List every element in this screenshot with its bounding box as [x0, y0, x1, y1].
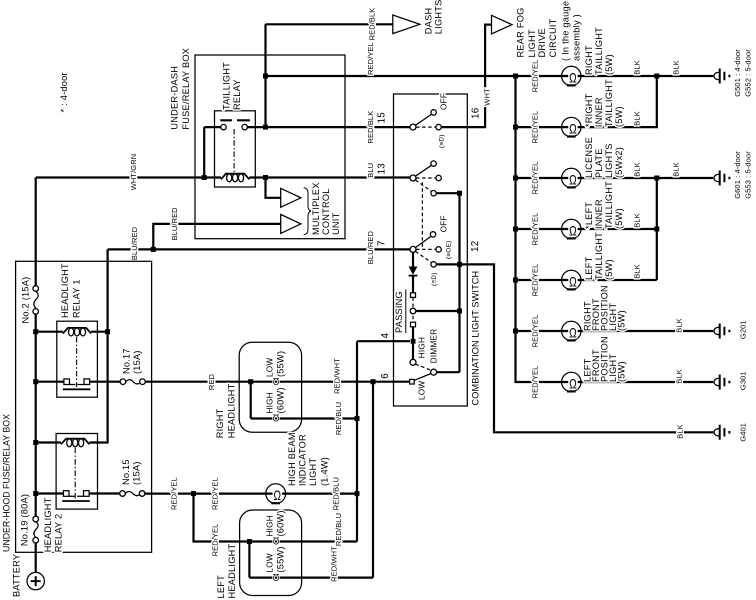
svg-text:RED/BLU: RED/BLU	[334, 402, 343, 435]
svg-text:(15A): (15A)	[132, 461, 142, 485]
switch internal vertical	[458, 193, 460, 372]
svg-text:HIGH: HIGH	[266, 392, 275, 413]
svg-text:(5W): (5W)	[604, 259, 614, 280]
svg-text:OFF: OFF	[440, 215, 449, 232]
taillight relay contact blade	[220, 119, 250, 121]
svg-text:BLK: BLK	[632, 162, 641, 176]
svg-text:TAILLIGHT: TAILLIGHT	[594, 232, 604, 280]
svg-text:RED/YEL: RED/YEL	[531, 162, 540, 195]
wire right headlight high beam branch	[251, 382, 357, 419]
wire row6 BLK to ground G201	[581, 330, 713, 332]
svg-text:LIGHT: LIGHT	[308, 458, 318, 486]
multiplex input arrow 2	[281, 214, 301, 233]
wire RED / RED/WHT row to switch pin 6	[145, 381, 410, 383]
svg-text:Ω: Ω	[274, 487, 282, 503]
combination light switch box	[394, 94, 468, 406]
svg-text:No.15: No.15	[121, 459, 131, 485]
switch row 13 lower contact	[431, 191, 436, 196]
svg-text:Ω: Ω	[569, 325, 577, 341]
svg-text:assembly ): assembly )	[572, 14, 582, 61]
relay2 coil	[61, 439, 89, 445]
svg-text:BLK: BLK	[672, 60, 681, 74]
fuse No.19 (80A)	[33, 516, 39, 522]
wire taillight bus	[516, 76, 562, 382]
svg-text:HIGH: HIGH	[266, 515, 275, 536]
switch row 13 arm	[415, 165, 431, 176]
svg-text:RIGHT: RIGHT	[584, 45, 594, 75]
svg-text:HEADLIGHT: HEADLIGHT	[227, 383, 237, 438]
svg-text:DRIVE: DRIVE	[537, 28, 547, 57]
wire row7 BLK to ground G301	[581, 381, 713, 383]
svg-text:Ω: Ω	[569, 223, 577, 239]
wire row5 feed	[516, 279, 562, 281]
svg-text:Ω: Ω	[569, 70, 577, 86]
svg-text:(5W): (5W)	[617, 310, 627, 331]
svg-text:RED/YEL: RED/YEL	[211, 524, 220, 557]
switch row 7 second contact	[436, 247, 441, 252]
svg-text:RED: RED	[207, 373, 216, 390]
bulb left front position light	[562, 372, 581, 391]
svg-text:HIGH BEAM: HIGH BEAM	[287, 432, 297, 486]
bulb right inner taillight	[562, 117, 581, 136]
taillight relay left link wire	[203, 127, 205, 177]
junction dots left	[33, 329, 38, 334]
svg-text:(1.4W): (1.4W)	[320, 457, 330, 486]
wire row1 BLK to ground	[581, 75, 713, 77]
svg-text:(55W): (55W)	[276, 351, 286, 377]
svg-text:UNDER-HOOD FUSE/RELAY BOX: UNDER-HOOD FUSE/RELAY BOX	[2, 414, 12, 552]
svg-text:RELAY 1: RELAY 1	[72, 279, 82, 318]
svg-text:BLU/RED: BLU/RED	[366, 231, 375, 265]
wire row6 feed	[516, 330, 562, 332]
wire BLU/RED to switch pin 7	[108, 248, 410, 250]
relay2 contact terminals	[63, 491, 69, 497]
svg-text:G553 : 5-door: G553 : 5-door	[743, 151, 752, 199]
svg-text:CIRCUIT: CIRCUIT	[548, 18, 558, 57]
svg-text:RED/BLK: RED/BLK	[368, 8, 377, 41]
switch row 13 upper contact	[431, 161, 436, 166]
svg-text:Ω: Ω	[569, 172, 577, 188]
fuse No.2 (15A)	[33, 286, 39, 292]
wire BLU/RED bus to relay coils	[89, 249, 107, 442]
svg-text:G201: G201	[738, 320, 747, 339]
svg-text:G301: G301	[738, 371, 747, 390]
wire pin 12 to ground G401	[460, 264, 714, 432]
taillight relay contact terminals	[221, 124, 226, 129]
svg-text:RED/YEL: RED/YEL	[531, 213, 540, 246]
svg-text:* : 4-door: * : 4-door	[59, 72, 69, 112]
svg-text:OFF: OFF	[440, 93, 449, 110]
svg-text:RED/WHT: RED/WHT	[330, 546, 339, 582]
left headlight box	[240, 510, 302, 596]
svg-text:RIGHT: RIGHT	[215, 408, 225, 438]
wire passing to dimmer	[412, 327, 414, 360]
fuse No.17 (15A)	[120, 379, 126, 385]
svg-text:LOW: LOW	[266, 358, 275, 377]
battery	[27, 572, 44, 589]
svg-text:BLK: BLK	[632, 264, 641, 278]
switch row 13 common contact	[410, 175, 416, 181]
svg-text:G601 : 4-door: G601 : 4-door	[733, 151, 742, 199]
svg-text:COMBINATION LIGHT SWITCH: COMBINATION LIGHT SWITCH	[470, 271, 480, 406]
svg-text:UNDER-DASH: UNDER-DASH	[170, 66, 180, 130]
switch row 15 OFF contact	[431, 110, 436, 115]
svg-text:(5W): (5W)	[614, 208, 624, 229]
svg-text:BLU/RED: BLU/RED	[170, 207, 179, 241]
svg-text:LOW: LOW	[266, 553, 275, 572]
wire drop to multiplex input 1	[266, 178, 281, 198]
svg-text:G552 : 5-door: G552 : 5-door	[743, 49, 752, 97]
svg-text:(5W): (5W)	[617, 361, 627, 382]
svg-text:RELAY: RELAY	[232, 79, 242, 110]
svg-text:13: 13	[377, 163, 388, 175]
svg-text:DASH: DASH	[423, 8, 433, 35]
svg-text:LOW: LOW	[417, 381, 426, 400]
taillight relay mechanical link	[233, 129, 235, 172]
svg-text:RED/YEL: RED/YEL	[211, 477, 220, 510]
under-dash fuse/relay box	[195, 55, 345, 239]
brace multiplex	[304, 188, 312, 235]
svg-text:(60W): (60W)	[276, 510, 286, 536]
ground G201	[714, 327, 719, 334]
wire pin16 WHT to rear fog	[441, 25, 491, 128]
svg-text:(5W): (5W)	[614, 106, 624, 127]
svg-text:16: 16	[471, 107, 482, 119]
svg-text:HEADLIGHT: HEADLIGHT	[227, 544, 237, 599]
svg-text:RED/WHT: RED/WHT	[333, 358, 342, 394]
bulb license plate lights	[562, 168, 581, 187]
switch row 15 second contact	[436, 124, 441, 129]
wire BLU coil to switch pin 13	[249, 176, 410, 178]
bulb left taillight	[562, 270, 581, 289]
svg-text:DIMMER: DIMMER	[429, 329, 438, 364]
dimmer arm dashed high	[415, 364, 431, 370]
svg-text:15: 15	[377, 112, 388, 124]
wire diode feed	[412, 252, 414, 266]
svg-text:*LEFT: *LEFT	[584, 202, 594, 229]
wire diode to passing	[412, 277, 414, 293]
svg-text:TAILLIGHT: TAILLIGHT	[594, 27, 604, 75]
svg-text:(≡OE): (≡OE)	[446, 241, 453, 259]
relay1 contact blade	[63, 388, 91, 390]
svg-text:INNER: INNER	[594, 97, 604, 127]
svg-text:(55W): (55W)	[276, 546, 286, 572]
svg-text:CONTROL: CONTROL	[321, 188, 331, 235]
svg-text:BATTERY: BATTERY	[12, 554, 22, 597]
headlight relay 2 box	[56, 434, 97, 510]
dimmer LOW contact	[410, 379, 415, 384]
wire RED/YEL drop to left headlight	[194, 494, 358, 542]
wire dimmer common out	[437, 371, 460, 373]
switch row 7 dashed	[416, 249, 436, 262]
svg-text:LIGHTS: LIGHTS	[604, 143, 614, 178]
svg-text:LEFT: LEFT	[584, 256, 594, 280]
wire row7 lower contact	[436, 263, 459, 265]
svg-text:PASSING: PASSING	[394, 291, 404, 333]
wire left headlight low branch	[249, 542, 373, 578]
headlight relay 1 box	[57, 321, 98, 397]
svg-text:Ω: Ω	[569, 274, 577, 290]
svg-text:7: 7	[377, 240, 388, 246]
svg-text:No.19 (80A): No.19 (80A)	[20, 494, 30, 546]
wire bus A vertical	[264, 24, 266, 127]
svg-text:PLATE: PLATE	[594, 148, 604, 178]
wire row3 feed	[516, 177, 562, 179]
passing switch dashed	[412, 297, 414, 322]
svg-text:(5Wx2): (5Wx2)	[614, 147, 624, 178]
svg-text:(≡D): (≡D)	[431, 272, 438, 286]
svg-text:BLK: BLK	[675, 424, 684, 438]
svg-text:LIGHTS: LIGHTS	[434, 0, 444, 34]
ground G401	[714, 429, 719, 436]
svg-text:INNER: INNER	[594, 199, 604, 229]
under-hood fuse/relay box	[16, 261, 152, 552]
switch mechanical link	[421, 182, 423, 247]
wire row4 feed	[516, 228, 562, 230]
pin 4 junction	[411, 339, 416, 344]
wire row4 row5 BLK up	[581, 178, 657, 280]
svg-text:WHT: WHT	[482, 88, 491, 106]
dimmer HIGH contact	[410, 359, 416, 365]
high beam indicator bulb	[266, 484, 286, 504]
relay2 contact blade	[62, 500, 90, 502]
wire indicator to vertical A	[286, 493, 357, 495]
svg-text:G501 : 4-door: G501 : 4-door	[733, 49, 742, 97]
svg-text:WHT/GRN: WHT/GRN	[129, 154, 138, 191]
svg-text:LIGHT: LIGHT	[527, 29, 537, 57]
svg-text:RED/BLK: RED/BLK	[366, 111, 375, 144]
svg-text:G401: G401	[738, 423, 747, 442]
svg-text:RED/BLU: RED/BLU	[332, 477, 341, 510]
svg-text:MULTIPLEX: MULTIPLEX	[311, 182, 321, 235]
relay1 mechanical link	[76, 337, 78, 387]
svg-text:BLK: BLK	[674, 369, 683, 383]
svg-text:RED/YEL: RED/YEL	[531, 60, 540, 93]
dimmer arm solid low	[414, 374, 431, 381]
switch row 7 common contact	[410, 246, 416, 252]
bulb right taillight	[562, 66, 581, 85]
taillight relay U1 box	[215, 111, 256, 187]
svg-text:RED/YEL: RED/YEL	[531, 111, 540, 144]
switch row 7 arm	[415, 236, 431, 247]
wire RED/YEL to high beam indicator	[145, 493, 266, 495]
svg-text:*RIGHT: *RIGHT	[584, 93, 594, 127]
taillight relay contact wires	[204, 126, 410, 128]
svg-text:(60W): (60W)	[276, 387, 286, 413]
svg-text:RED/YEL: RED/YEL	[366, 42, 375, 75]
passing switch bottom contact	[411, 322, 416, 327]
svg-text:BLK: BLK	[632, 213, 641, 227]
svg-text:6: 6	[380, 373, 391, 379]
switch row 7 lower contact	[431, 262, 436, 267]
svg-text:RELAY 2: RELAY 2	[54, 514, 64, 553]
taillight relay coil	[221, 174, 249, 180]
svg-text:RED/YEL: RED/YEL	[531, 315, 540, 348]
switch row 15 dashed	[416, 126, 436, 128]
wire row13 lower contact	[436, 192, 459, 194]
svg-text:Ω: Ω	[569, 121, 577, 137]
svg-text:BLK: BLK	[674, 318, 683, 332]
svg-text:TAILLIGHT: TAILLIGHT	[604, 79, 614, 127]
relay2 coil wires	[36, 441, 61, 443]
switch junction dots	[457, 191, 462, 196]
svg-text:(5W): (5W)	[604, 54, 614, 75]
svg-text:HEADLIGHT: HEADLIGHT	[43, 497, 53, 552]
wire row2 BLK up	[581, 76, 657, 127]
ground G601/G553	[714, 174, 719, 181]
rear fog arrow	[492, 15, 512, 34]
junction dots top	[263, 74, 268, 79]
wire row3 BLK to ground	[581, 177, 713, 179]
svg-text:BLK: BLK	[672, 162, 681, 176]
wire battery bus upper	[35, 178, 37, 286]
svg-text:BLK: BLK	[632, 111, 641, 125]
ground G301	[714, 378, 719, 385]
wire passing output	[416, 310, 460, 312]
svg-text:(≡D): (≡D)	[438, 134, 445, 148]
bulb left inner taillight	[562, 219, 581, 238]
wire RED/BLU right high to vertical A / pin 4	[357, 341, 410, 541]
wire battery bus middle	[35, 314, 37, 516]
switch row 7 OFF contact	[430, 232, 435, 237]
relay1 coil	[63, 328, 91, 334]
svg-text:REAR FOG: REAR FOG	[516, 8, 526, 58]
switch row 13 dashed	[416, 178, 436, 191]
svg-text:RED/YEL: RED/YEL	[170, 477, 179, 510]
diode D1	[409, 267, 418, 275]
passing switch mid contact	[410, 308, 416, 314]
svg-text:12: 12	[470, 241, 481, 252]
wire row2 feed	[516, 126, 562, 128]
svg-text:LEFT: LEFT	[216, 575, 226, 599]
passing switch top contact	[411, 293, 416, 298]
switch row 15 common contact	[410, 124, 416, 130]
svg-text:HIGH: HIGH	[417, 337, 426, 358]
svg-text:(15A): (15A)	[132, 350, 142, 374]
svg-text:INDICATOR: INDICATOR	[298, 434, 308, 486]
svg-text:Ω: Ω	[569, 376, 577, 392]
ground G501/G552	[714, 72, 719, 79]
svg-text:TAILLIGHT: TAILLIGHT	[222, 62, 232, 110]
wire RED/YEL taillight feed	[266, 75, 562, 77]
svg-text:4: 4	[380, 333, 391, 339]
right headlight box	[239, 342, 301, 432]
multiplex input arrow 1	[281, 188, 301, 207]
relay1 contact wires	[36, 381, 120, 383]
switch row 13 second contact	[436, 175, 441, 180]
svg-text:No.17: No.17	[122, 348, 132, 374]
switch row 15 arm	[415, 114, 431, 125]
svg-text:UNIT: UNIT	[331, 212, 341, 235]
svg-text:BLU: BLU	[366, 163, 375, 178]
wire bus to battery	[35, 543, 37, 572]
svg-text:RED/YEL: RED/YEL	[531, 366, 540, 399]
svg-text:RED/YEL: RED/YEL	[531, 264, 540, 297]
svg-text:HEADLIGHT: HEADLIGHT	[60, 263, 70, 318]
dash lights arrow	[393, 15, 420, 34]
relay1 coil wires	[36, 331, 108, 333]
svg-text:FUSE/RELAY BOX: FUSE/RELAY BOX	[181, 48, 191, 130]
wire BLU/RED to multiplex input 2	[153, 224, 280, 250]
bulb right front position light	[562, 321, 581, 340]
svg-text:RED/BLU: RED/BLU	[334, 513, 343, 546]
junction dots right	[513, 74, 518, 79]
svg-text:BLU/RED: BLU/RED	[130, 226, 139, 260]
wire RED/BLK to dash lights	[266, 23, 393, 25]
svg-text:No.2 (15A): No.2 (15A)	[20, 277, 30, 324]
wire WHT/GRN from fuse No.2	[36, 176, 221, 178]
svg-text:TAILLIGHT: TAILLIGHT	[604, 181, 614, 229]
fuse No.15 (15A)	[120, 491, 126, 497]
relay1 contact terminals	[64, 379, 70, 385]
dimmer common contact	[431, 369, 437, 375]
wire RED/WHT left low to pin 6	[372, 382, 374, 578]
svg-text:BLK: BLK	[632, 60, 641, 74]
svg-text:( In the gauge: ( In the gauge	[560, 1, 570, 61]
relay2 contact wires	[36, 492, 120, 494]
svg-text:LICENSE: LICENSE	[584, 137, 594, 178]
relay2 mechanical link	[74, 448, 76, 499]
